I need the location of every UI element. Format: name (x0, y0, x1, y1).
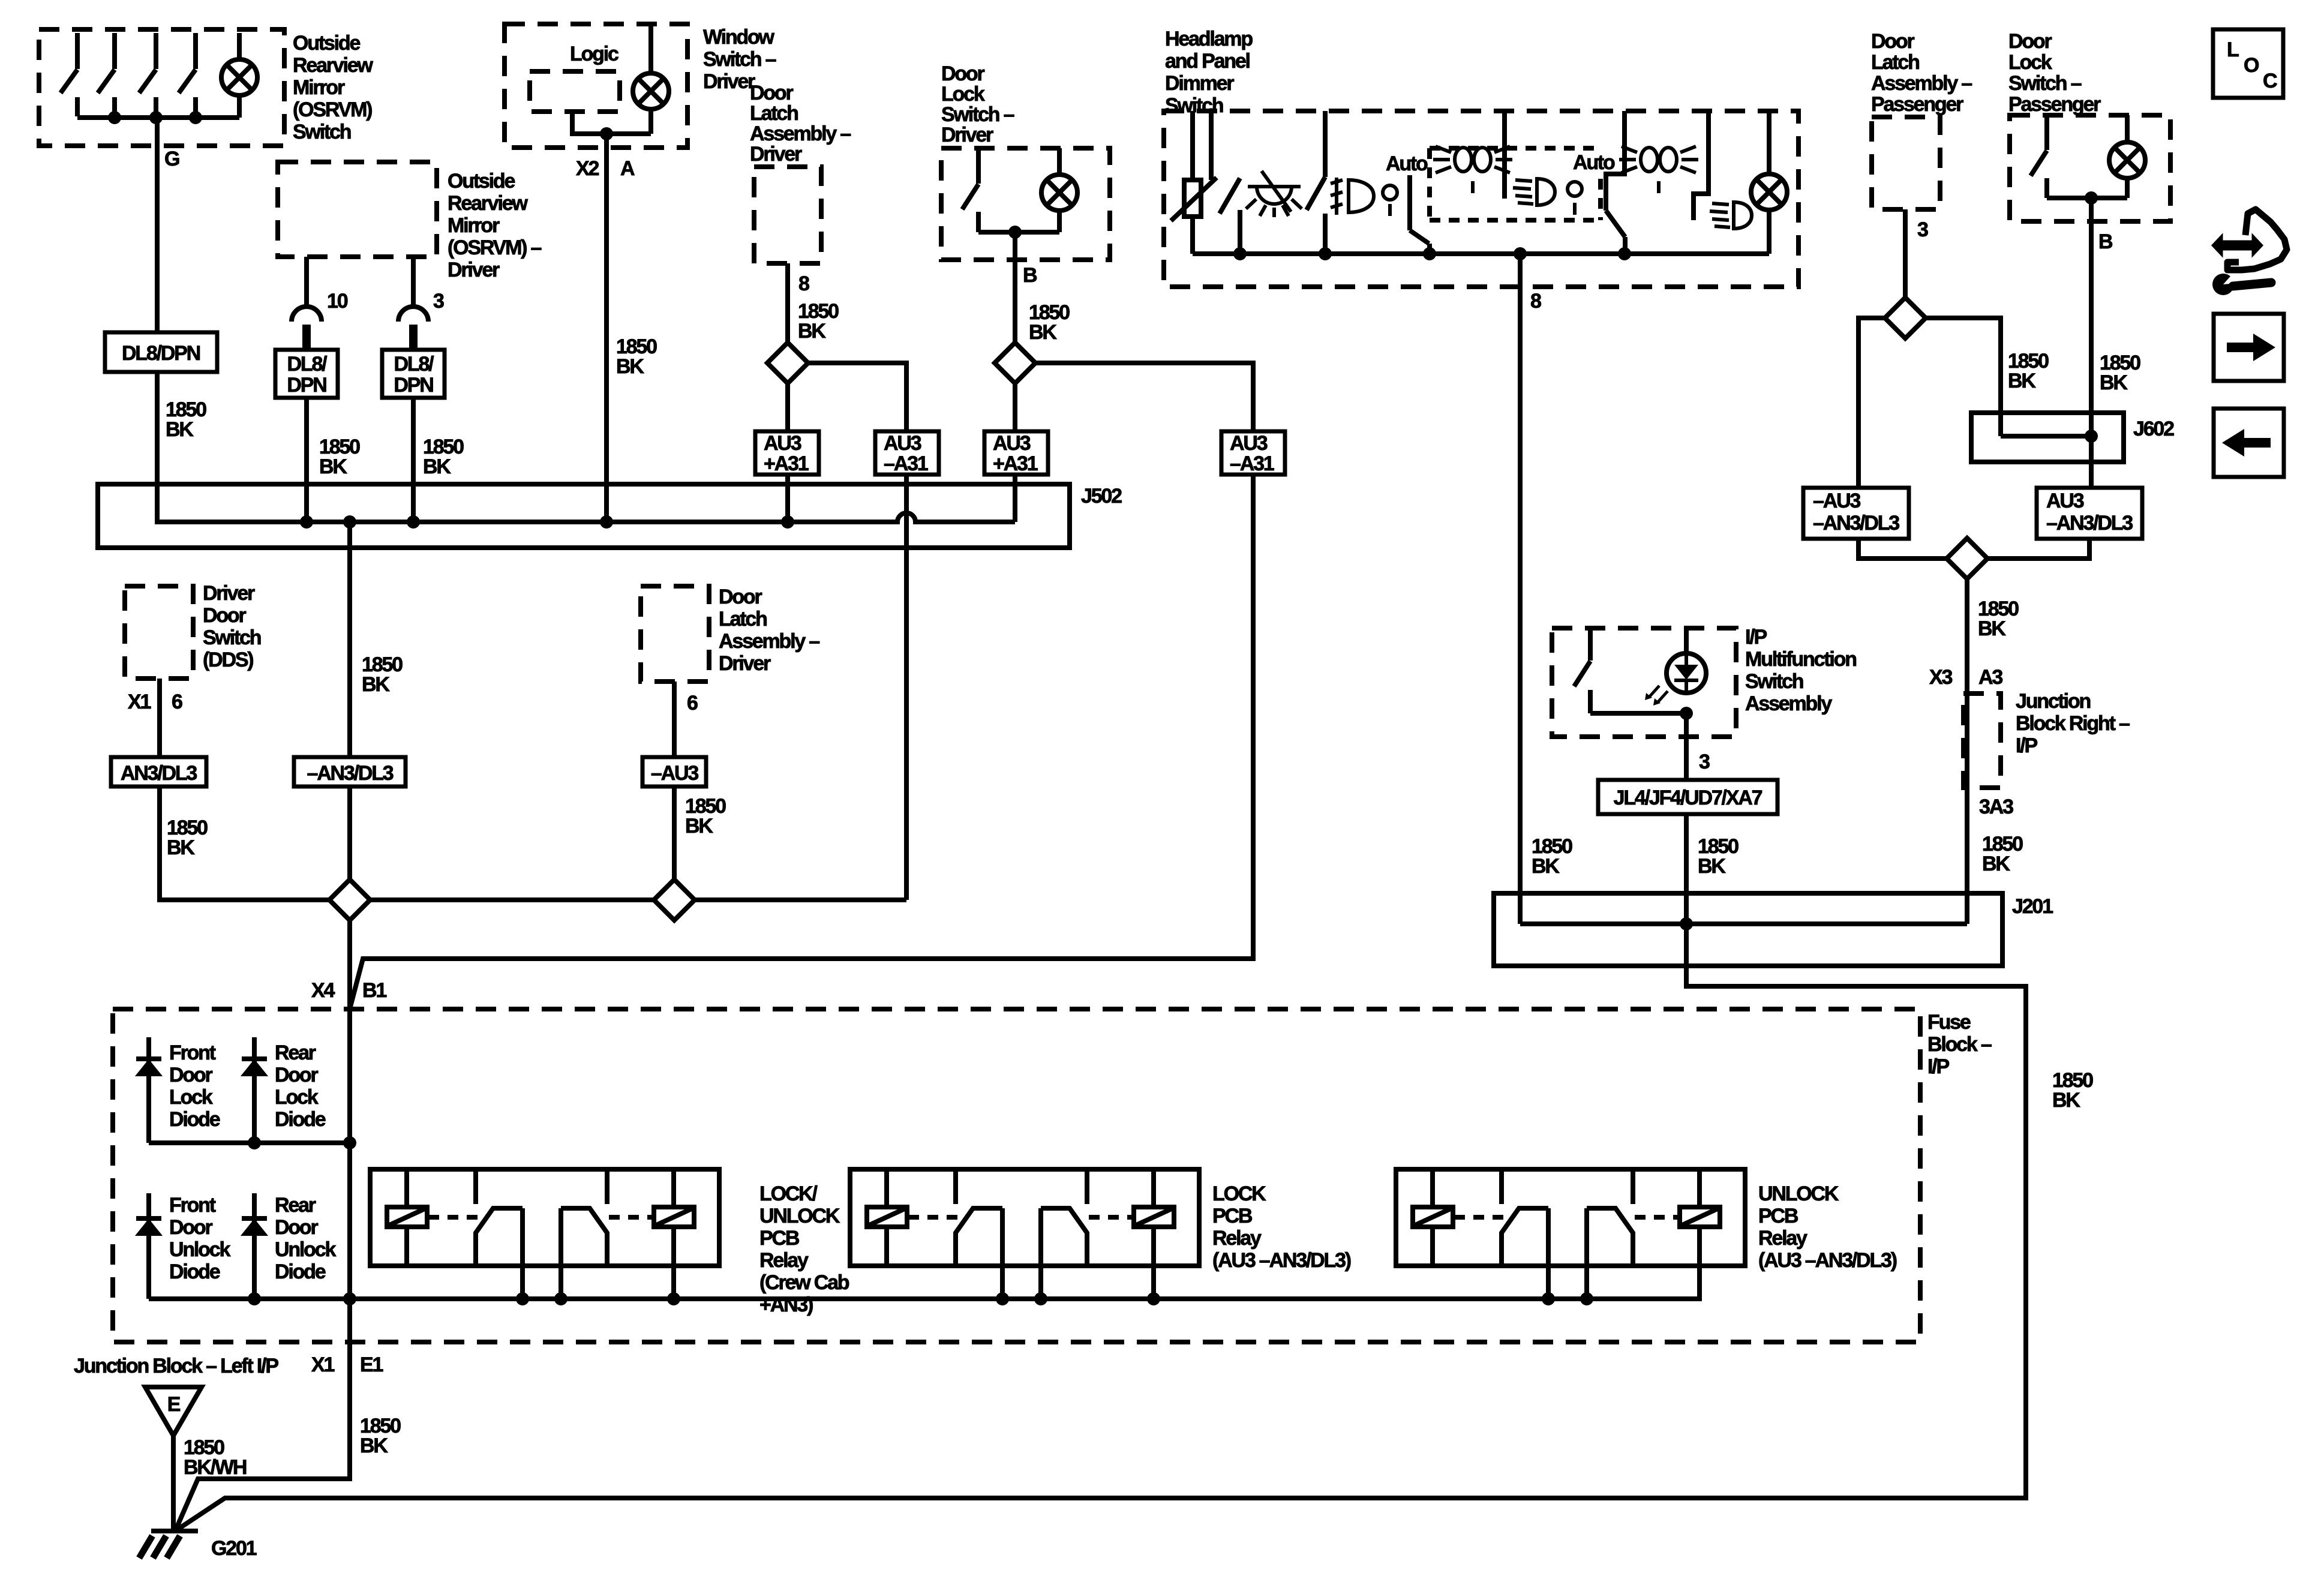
label box AU3 -A31 b (1221, 431, 1285, 475)
svg-text:AU3: AU3 (764, 432, 801, 455)
svg-text:3: 3 (433, 290, 444, 313)
wire B down (1013, 383, 1017, 431)
wire lock diode row (149, 1140, 350, 1145)
svg-text:3: 3 (1699, 751, 1710, 773)
label 1850 BK -AU3 (685, 795, 726, 837)
ground G201 (139, 1531, 198, 1558)
switch dimmer B (1307, 111, 1325, 254)
node on bus S4 (189, 111, 202, 124)
svg-text:–A31: –A31 (1230, 452, 1274, 475)
node J502 pin10 (300, 515, 313, 529)
svg-text:Outside: Outside (448, 170, 515, 193)
wire AU3-A31a through J502 (904, 475, 909, 900)
contact stub E (1694, 111, 1709, 220)
pin 10 stub (304, 257, 309, 305)
label LOCK/UNLOCK PCB Relay (759, 1182, 849, 1316)
diamond latch8 (767, 343, 808, 383)
label box AU3 +A31 a (755, 431, 819, 475)
svg-text:(DDS): (DDS) (203, 649, 253, 671)
svg-text:Multifunction: Multifunction (1745, 648, 1856, 671)
wire lock passenger internal (2047, 196, 2127, 200)
wire -AU3 box down (1858, 539, 1947, 559)
svg-text:LOCK: LOCK (1212, 1182, 1266, 1205)
svg-text:Block –: Block – (1927, 1033, 1992, 1056)
svg-text:Relay: Relay (1758, 1227, 1807, 1250)
label 1850 BK 3A3 (1982, 833, 2023, 875)
label Window Switch Driver (703, 26, 776, 93)
label OSRVM Switch (293, 32, 373, 143)
svg-text:Door: Door (719, 586, 762, 608)
svg-text:BK: BK (319, 455, 347, 478)
icon hand adjust (2212, 209, 2287, 270)
label Front Door Unlock Diode (169, 1194, 230, 1283)
door latch assembly driver lower box (641, 586, 709, 682)
wire lock driver internal (978, 230, 1059, 235)
pin 3 stub (411, 257, 416, 305)
wire pin10 to J502 (304, 398, 309, 522)
wire E to ground (171, 1436, 176, 1531)
diamond main (329, 879, 370, 920)
node B driver (1008, 226, 1022, 239)
label 1850 BK passenger join (1978, 598, 2019, 640)
svg-text:Diode: Diode (275, 1108, 326, 1131)
svg-text:Lock: Lock (941, 83, 985, 106)
svg-text:O: O (2244, 54, 2259, 77)
LED multifunction (1645, 628, 1706, 706)
svg-text:Assembly –: Assembly – (750, 122, 851, 145)
switch dimmer D auto (1606, 111, 1625, 254)
svg-text:–A31: –A31 (884, 452, 928, 475)
svg-text:BK: BK (1982, 852, 2010, 875)
switch S3 OSRVM (139, 33, 156, 116)
node bus swC (1423, 247, 1436, 260)
svg-text:AU3: AU3 (884, 432, 921, 455)
connector J602 (1971, 413, 2124, 462)
label 1850 BK pin3 (423, 436, 464, 478)
pin 3 connector arc (398, 307, 428, 322)
svg-text:Auto: Auto (1573, 151, 1615, 174)
svg-text:E1: E1 (360, 1353, 383, 1376)
svg-text:DL8/: DL8/ (394, 353, 435, 376)
svg-text:–AU3: –AU3 (651, 762, 698, 785)
svg-text:X1: X1 (128, 691, 151, 713)
svg-text:Block Right –: Block Right – (2016, 712, 2130, 735)
wire AU3+A31b to J502 (1013, 475, 1017, 522)
wire latch passenger left branch (1858, 318, 1885, 488)
label Fuse Block IP (1927, 1011, 1992, 1078)
pin 10 terminal bar (302, 325, 311, 350)
wire latch8 branch right (808, 363, 906, 431)
label 1850 BK E1 (360, 1415, 401, 1457)
icon arrow right box (2214, 314, 2284, 381)
wire DDS down (157, 679, 162, 757)
diamond latch passenger (1885, 298, 1926, 338)
svg-text:Door: Door (275, 1064, 318, 1086)
node bus relay1 pin3 (667, 1292, 680, 1305)
svg-text:Switch: Switch (1745, 670, 1803, 693)
lamp door lock driver (1041, 148, 1077, 232)
svg-text:Door: Door (750, 82, 793, 104)
svg-text:G201: G201 (211, 1537, 257, 1560)
switch S1 OSRVM (61, 33, 77, 116)
svg-text:Driver: Driver (941, 124, 993, 146)
svg-text:X4: X4 (311, 979, 335, 1002)
svg-text:6: 6 (172, 691, 182, 713)
switch S2 OSRVM (98, 33, 115, 116)
svg-text:Driver: Driver (750, 143, 802, 166)
label 1850 BK wire 8 (1532, 835, 1572, 878)
svg-text:Rearview: Rearview (293, 54, 373, 77)
node bus relay1 pin2 (554, 1292, 568, 1305)
label box -AN3/DL3 (294, 757, 406, 786)
wire pin3 to J502 (411, 398, 416, 522)
svg-text:Door: Door (941, 62, 984, 85)
node A junction (600, 127, 613, 140)
junction block right IP box (1963, 694, 2001, 788)
label box AU3 +A31 b (984, 431, 1048, 475)
svg-text:B: B (1023, 264, 1037, 287)
svg-text:X3: X3 (1929, 666, 1952, 689)
node bus relay2 pin1 (996, 1292, 1009, 1305)
svg-text:Mirror: Mirror (448, 214, 500, 237)
svg-text:(OSRVM) –: (OSRVM) – (448, 236, 542, 259)
icon position circle 1 (1383, 185, 1397, 216)
svg-text:BK: BK (1698, 855, 1726, 878)
svg-text:Door: Door (2008, 30, 2052, 53)
svg-text:L: L (2227, 38, 2239, 61)
label Front Door Lock Diode (169, 1041, 220, 1131)
svg-text:Latch: Latch (750, 102, 798, 125)
node multifunction (1680, 707, 1693, 720)
svg-text:A: A (620, 157, 635, 180)
icon headlamp 1 (1513, 179, 1555, 205)
svg-text:3: 3 (1917, 218, 1928, 241)
svg-text:Assembly: Assembly (1745, 692, 1832, 715)
svg-text:BK: BK (2052, 1089, 2080, 1112)
wire passenger join down to J201 (1965, 579, 1969, 924)
lamp window switch (633, 24, 669, 134)
diamond passenger join (1947, 538, 1987, 579)
svg-text:Door: Door (203, 604, 246, 627)
wire main diamond down (347, 920, 352, 1299)
svg-text:Assembly –: Assembly – (1871, 72, 1972, 95)
label LOCK PCB Relay (1212, 1182, 1351, 1272)
icon headlamp 2 (1710, 202, 1752, 229)
svg-text:BK: BK (2100, 371, 2128, 394)
label Rear Door Lock Diode (275, 1041, 326, 1131)
switch S4 OSRVM (179, 33, 196, 116)
label box AU3 -AN3/DL3 (2037, 488, 2142, 539)
label Headlamp and Panel Dimmer Switch (1165, 28, 1253, 117)
driver door switch box (125, 586, 193, 679)
svg-text:6: 6 (687, 692, 698, 715)
svg-text:X1: X1 (311, 1353, 334, 1376)
svg-text:and Panel: and Panel (1165, 50, 1250, 73)
wire diamond link (370, 897, 654, 902)
svg-text:Door: Door (275, 1216, 318, 1239)
wire latch passenger pin 3 (1903, 209, 1908, 298)
svg-text:Assembly –: Assembly – (719, 630, 819, 653)
contact stub D (1502, 111, 1507, 199)
svg-text:BK: BK (1978, 617, 2006, 640)
diode front door unlock (136, 1193, 161, 1299)
wire latch passenger right branch (1926, 318, 2001, 436)
svg-text:BK: BK (166, 418, 194, 441)
door lock switch driver box (941, 148, 1110, 260)
label 1850 BK j602 right (2100, 352, 2140, 394)
svg-text:Outside: Outside (293, 32, 360, 55)
label 1850 BK pin10 (319, 436, 360, 478)
svg-text:Fuse: Fuse (1927, 1011, 1971, 1034)
label Driver Door Switch DDS (203, 582, 261, 671)
svg-text:Driver: Driver (448, 259, 500, 281)
svg-text:I/P: I/P (2016, 734, 2037, 757)
svg-text:Mirror: Mirror (293, 76, 345, 99)
pin X1 E1 labels (311, 1353, 383, 1376)
svg-text:J201: J201 (2012, 895, 2053, 918)
label 1850 BK wire G (166, 398, 206, 441)
wire main to diamond (347, 786, 352, 879)
wire B driver down (1013, 232, 1017, 343)
svg-text:Dimmer: Dimmer (1165, 72, 1234, 95)
svg-text:BK: BK (167, 836, 195, 859)
node J502 A (600, 515, 613, 529)
svg-text:Latch: Latch (719, 608, 767, 631)
svg-text:Unlock: Unlock (275, 1238, 336, 1261)
connector J502 (98, 484, 1070, 548)
svg-text:BK: BK (362, 673, 390, 696)
node bus relay2 pin2 (1034, 1292, 1047, 1305)
pin 3 terminal bar (409, 325, 418, 350)
lamp dimmer (1751, 111, 1787, 254)
label 1850 BK main (362, 653, 403, 696)
svg-text:DL8/DPN: DL8/DPN (122, 342, 200, 365)
svg-text:Switch –: Switch – (703, 48, 776, 71)
svg-text:8: 8 (1530, 290, 1541, 313)
svg-text:+A31: +A31 (764, 452, 809, 475)
pin X1 6 labels (128, 691, 182, 713)
wire logic output (572, 112, 651, 134)
svg-text:Auto: Auto (1386, 152, 1428, 175)
node on bus S2 (108, 111, 121, 124)
svg-text:BK: BK (360, 1434, 388, 1457)
svg-text:–AN3/DL3: –AN3/DL3 (307, 762, 393, 785)
svg-text:BK: BK (685, 815, 713, 837)
svg-text:10: 10 (327, 290, 348, 313)
wire latch pin 8 (785, 263, 790, 343)
label box AN3/DL3 (111, 757, 206, 786)
node bus relay3 pin1 (1542, 1292, 1555, 1305)
svg-text:Lock: Lock (2008, 51, 2052, 74)
label Door Lock Switch Driver (941, 62, 1014, 146)
label 1850 BK B driver (1029, 301, 1070, 344)
svg-text:Rearview: Rearview (448, 192, 528, 215)
svg-text:Driver: Driver (719, 652, 771, 675)
label Door Latch Assembly Driver top (750, 82, 851, 166)
wire OSRVM internal bus (77, 115, 239, 120)
lamp OSRVM switch (221, 33, 257, 118)
icon position circle 2 (1568, 182, 1582, 215)
label box -AU3 -AN3/DL3 (1803, 488, 1909, 539)
wire A to J502 (604, 134, 609, 522)
pin X2 A labels (576, 157, 635, 180)
node J502 pin3 (407, 515, 420, 529)
switch dimmer A (1220, 178, 1240, 254)
svg-text:AU3: AU3 (2046, 490, 2084, 512)
wire dimmer output 8 to J201 (1518, 254, 1523, 924)
svg-text:Rear: Rear (275, 1194, 316, 1217)
node J602 (2085, 430, 2098, 443)
svg-text:(AU3 –AN3/DL3): (AU3 –AN3/DL3) (1758, 1249, 1897, 1272)
svg-text:AU3: AU3 (1230, 432, 1268, 455)
wire latch6 down (672, 682, 677, 757)
wire latch8 down (785, 383, 790, 431)
svg-text:–AN3/DL3: –AN3/DL3 (1813, 512, 1899, 535)
svg-text:UNLOCK: UNLOCK (1758, 1182, 1839, 1205)
svg-text:DL8/: DL8/ (287, 353, 328, 376)
wire G down to DL8/DPN (155, 118, 160, 332)
icon LOC box (2213, 29, 2283, 98)
svg-text:BK: BK (2008, 370, 2036, 392)
node on bus S3 (149, 111, 163, 124)
svg-text:Latch: Latch (1871, 51, 1919, 74)
OSRVM driver box (278, 162, 437, 257)
label 1850 BK latch8 (798, 300, 839, 343)
diode rear door lock (242, 1037, 267, 1143)
wire dimmer internal bus (1193, 251, 1769, 256)
wire AU3+A31a to J502 (785, 475, 790, 522)
label UNLOCK PCB Relay (1758, 1182, 1897, 1272)
window switch driver box (505, 24, 687, 148)
label Junction Block Right IP (2016, 690, 2130, 757)
ground terminal E triangle (145, 1387, 202, 1436)
svg-text:3A3: 3A3 (1979, 795, 2013, 818)
wire multifunction internal (1590, 711, 1686, 716)
rheostat dimmer (1171, 111, 1217, 254)
inner dashed box auto (1430, 148, 1601, 220)
wire G to J502 (155, 372, 160, 522)
svg-text:BK/WH: BK/WH (184, 1456, 247, 1479)
node bus output 8 (1514, 247, 1527, 260)
wire main to ground jog (175, 1299, 350, 1531)
label 1850 BK j602 left (2008, 350, 2049, 392)
svg-text:BK: BK (798, 320, 826, 343)
svg-text:Switch: Switch (203, 626, 261, 649)
svg-text:PCB: PCB (759, 1227, 800, 1250)
svg-text:DPN: DPN (394, 374, 433, 397)
svg-text:BK: BK (1029, 321, 1057, 344)
wire JL4 down to J201 (1684, 814, 1689, 966)
svg-text:JL4/JF4/UD7/XA7: JL4/JF4/UD7/XA7 (1614, 786, 1762, 809)
icon wrench (2212, 274, 2271, 295)
svg-text:BK: BK (616, 355, 644, 378)
switch door lock passenger (2031, 115, 2047, 198)
pin X4 B1 labels (311, 979, 386, 1002)
pin X3 A3 labels (1929, 666, 2002, 689)
diode rear door unlock (242, 1193, 267, 1299)
node bus unlock rear (248, 1292, 261, 1305)
svg-text:I/P: I/P (1745, 626, 1767, 649)
svg-text:PCB: PCB (1758, 1205, 1798, 1227)
node bus swD (1618, 247, 1631, 260)
wire B branch right (1035, 363, 1253, 431)
svg-text:Front: Front (169, 1041, 216, 1064)
svg-text:Passenger: Passenger (1871, 93, 1963, 116)
pin 10 connector arc (292, 307, 322, 322)
svg-text:+A31: +A31 (993, 452, 1038, 475)
switch multifunction (1574, 628, 1590, 713)
logic box (530, 71, 620, 112)
svg-text:–AN3/DL3: –AN3/DL3 (2046, 512, 2133, 535)
svg-text:–AU3: –AU3 (1813, 490, 1860, 512)
svg-text:Door: Door (169, 1064, 212, 1086)
svg-text:Diode: Diode (169, 1108, 220, 1131)
label 1850 BK right drop (2052, 1069, 2093, 1112)
label 1850 BK multifunction (1698, 835, 1739, 878)
OSRVM switch box (39, 29, 284, 146)
svg-text:DPN: DPN (287, 374, 326, 397)
node J502 latch8 (781, 515, 794, 529)
svg-text:BK: BK (423, 455, 451, 478)
svg-text:Junction Block – Left I/P: Junction Block – Left I/P (74, 1355, 278, 1377)
svg-text:X2: X2 (576, 157, 599, 180)
label box -AU3 (642, 757, 706, 786)
svg-text:8: 8 (798, 272, 809, 295)
fuse block IP box (113, 1009, 1920, 1342)
svg-text:Switch –: Switch – (2008, 72, 2082, 95)
label box DL8/DPN pin10 (275, 350, 338, 398)
wire J201 output to ground bus (175, 966, 2026, 1531)
icon park lamps 2 (1619, 146, 1698, 193)
label Rear Door Unlock Diode (275, 1194, 336, 1283)
wire unlock bus (149, 1227, 1700, 1299)
svg-text:A3: A3 (1978, 666, 2002, 689)
node J502 main (343, 515, 356, 529)
wire AU3 box down (1987, 539, 2089, 559)
relay unlock PCB (1396, 1169, 1745, 1299)
svg-text:Logic: Logic (570, 43, 618, 65)
svg-text:PCB: PCB (1212, 1205, 1253, 1227)
svg-text:Diode: Diode (169, 1260, 220, 1283)
node bus main (343, 1292, 356, 1305)
node bus relay3 pin2 (1580, 1292, 1593, 1305)
wire main below J502 (347, 522, 352, 757)
wire DDS to diamond (160, 786, 329, 900)
svg-text:Door: Door (169, 1216, 212, 1239)
wire AU3-A31b long run to fuse block (350, 475, 1253, 1009)
svg-text:C: C (2263, 70, 2277, 92)
svg-text:+AN3): +AN3) (759, 1293, 813, 1316)
label Door Lock Switch Passenger (2008, 30, 2101, 116)
label Door Latch Assembly Passenger (1871, 30, 1972, 116)
svg-text:Lock: Lock (275, 1086, 319, 1109)
label 1850 BK wire A (616, 335, 657, 378)
node lock diode main (343, 1136, 356, 1149)
door latch assembly driver box (754, 167, 821, 263)
svg-text:Switch: Switch (293, 121, 351, 143)
switch dimmer C auto (1410, 175, 1430, 254)
svg-text:B: B (2098, 230, 2113, 253)
svg-text:(Crew Cab: (Crew Cab (759, 1271, 849, 1294)
svg-text:Rear: Rear (275, 1041, 316, 1064)
headlamp dimmer switch box (1164, 111, 1798, 287)
label box DL8/DPN (105, 332, 217, 372)
svg-text:J602: J602 (2133, 418, 2174, 440)
node B passenger (2085, 191, 2098, 205)
node bus relay2 pin3 (1147, 1292, 1160, 1305)
label OSRVM Driver (448, 170, 542, 281)
svg-text:I/P: I/P (1927, 1055, 1949, 1078)
